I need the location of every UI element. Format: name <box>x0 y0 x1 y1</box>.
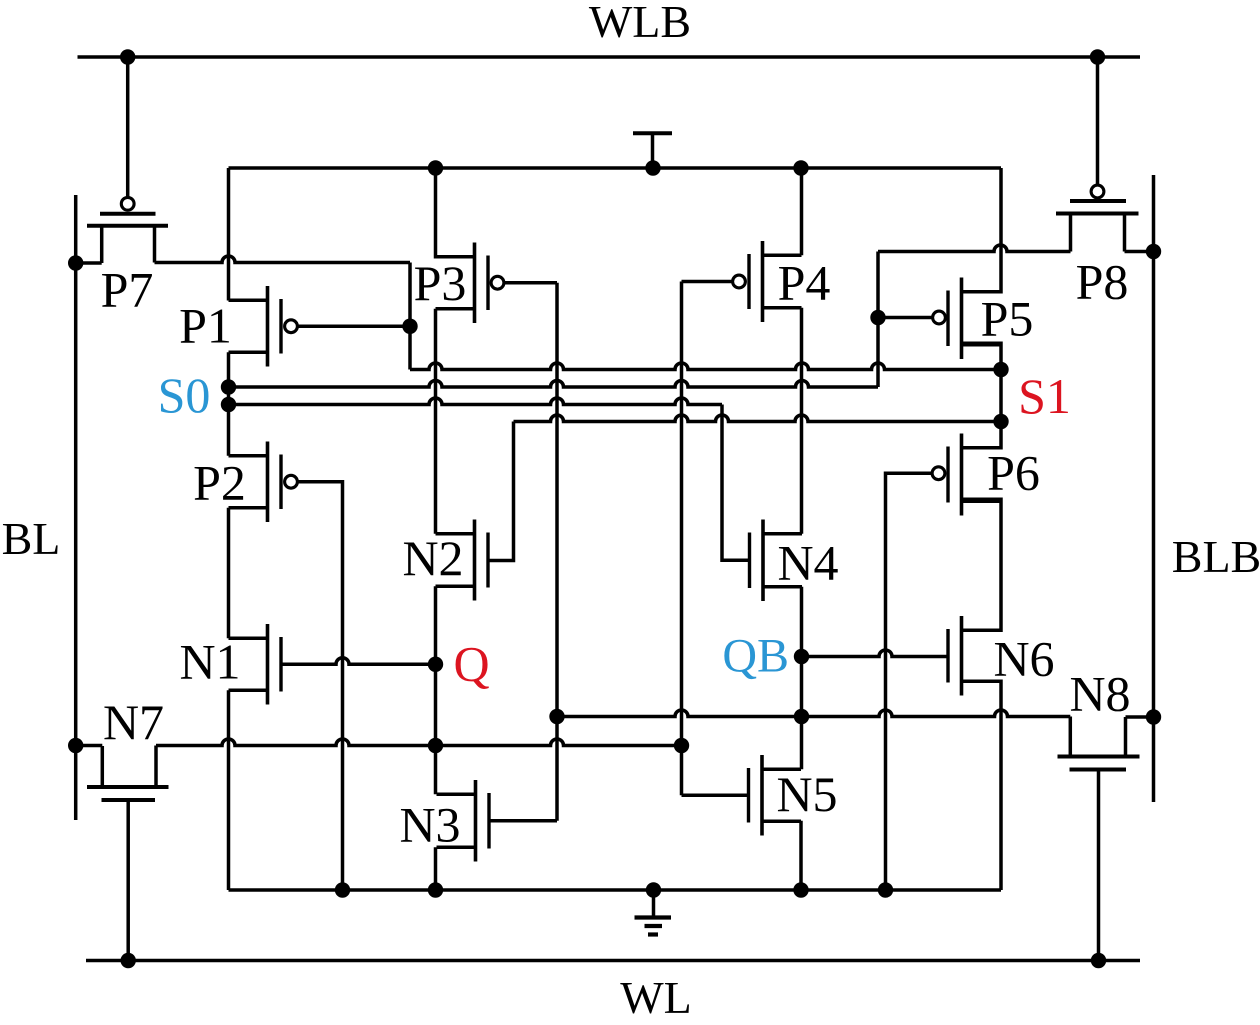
transistor P8 gate bubble <box>1091 185 1104 198</box>
svg-text:WL: WL <box>620 972 692 1023</box>
transistor N3 <box>474 780 478 862</box>
node WLB junction right <box>1090 49 1105 64</box>
wire Q line745 <box>156 739 682 745</box>
wire bus S0 upper <box>229 381 879 388</box>
node S1 lower dot <box>993 414 1008 429</box>
transistor P5 <box>960 278 964 360</box>
transistor N5 <box>760 755 764 836</box>
svg-text:P2: P2 <box>193 455 246 511</box>
wire P2 drain to N1 source <box>227 508 231 639</box>
svg-text:N6: N6 <box>993 631 1054 687</box>
wire N3 gate <box>489 819 557 823</box>
svg-text:P5: P5 <box>981 291 1034 347</box>
node WL junction right <box>1091 953 1106 968</box>
transistor P8 <box>1070 199 1126 203</box>
svg-text:Q: Q <box>454 636 490 692</box>
wire P5 gate <box>878 316 933 320</box>
wire P7 drain to P1 gate column <box>155 256 411 263</box>
wire N5 gate <box>682 794 749 798</box>
node ground rail junction P6gate <box>878 882 893 897</box>
node Q-right junction <box>674 738 689 753</box>
transistor P1 gate bubble <box>285 320 298 333</box>
wire P1 gate <box>297 325 410 329</box>
node P1 gate junction <box>402 319 417 334</box>
node BL N7 junction <box>68 738 83 753</box>
transistor P1 <box>266 286 270 367</box>
node S0 lower dot <box>221 397 236 412</box>
node VDD rail junction P3 <box>428 160 443 175</box>
transistor P3 gate bubble <box>491 276 504 289</box>
wire QB line716 <box>557 710 1070 717</box>
node Q dot <box>428 657 443 672</box>
wire P8 drain to P5 gate column <box>878 245 1071 251</box>
wire P4 drain to N4 source <box>800 308 804 534</box>
svg-text:N2: N2 <box>402 530 463 586</box>
transistor P5 gate bubble <box>933 311 946 324</box>
transistor P3 <box>473 243 477 324</box>
wire P7 gate to WLB <box>126 57 130 197</box>
svg-text:P1: P1 <box>179 298 232 354</box>
wire P3 source to VDD rail <box>436 168 475 257</box>
node WL junction left <box>121 953 136 968</box>
wire N5 drain to ground rail <box>799 821 803 890</box>
wire N2 gate column <box>488 422 514 561</box>
wire BL to P7 source <box>76 261 102 265</box>
svg-text:S1: S1 <box>1018 368 1071 424</box>
transistor P4 <box>761 241 765 322</box>
svg-text:N3: N3 <box>399 797 460 853</box>
transistor N6 <box>960 616 964 696</box>
wire N8 gate to WL <box>1097 770 1101 961</box>
transistor P7 gate bubble <box>121 197 134 210</box>
node S1 upper dot <box>993 362 1008 377</box>
node BL P7 junction <box>68 255 83 270</box>
transistor N4 <box>761 520 765 602</box>
node QB dot <box>794 649 809 664</box>
wire N1 drain to ground rail <box>227 690 231 890</box>
svg-text:P3: P3 <box>414 255 467 311</box>
wire VDD rail to P5 source <box>962 168 1002 292</box>
transistor N2 <box>473 520 477 601</box>
transistor P2 gate bubble <box>285 475 298 488</box>
node QB line716 junction <box>794 709 809 724</box>
node VDD stem junction <box>645 160 660 175</box>
svg-text:WLB: WLB <box>589 0 691 47</box>
svg-text:P6: P6 <box>987 445 1040 501</box>
wire N8 drain to BLB <box>1126 715 1154 719</box>
wire P8 gate to WLB <box>1096 57 1100 185</box>
transistor P6 gate bubble <box>932 467 945 480</box>
svg-text:BL: BL <box>2 513 61 564</box>
wire P1 drain to P2 source <box>227 352 231 456</box>
svg-text:P8: P8 <box>1076 254 1129 310</box>
wire bus S1 upper <box>410 363 1001 369</box>
svg-text:S0: S0 <box>158 367 211 423</box>
svg-text:P7: P7 <box>101 262 154 318</box>
wire P2 gate to ground <box>297 482 342 890</box>
ground symbol <box>652 890 656 918</box>
wire ground rail <box>229 888 1002 892</box>
wire P8 drain to BLB <box>1125 250 1154 254</box>
wire P6 gate to ground <box>886 473 933 890</box>
node BLB N8 junction <box>1146 709 1161 724</box>
wire WLB line <box>78 55 1141 59</box>
node VDD rail junction P4 <box>793 160 808 175</box>
wire P4 source to VDD rail <box>800 168 804 255</box>
svg-text:N4: N4 <box>777 535 838 591</box>
node ground rail junction N3 <box>428 882 443 897</box>
node ground rail junction GND <box>646 882 661 897</box>
wire BLB line <box>1152 175 1156 802</box>
transistor P2 <box>266 442 270 523</box>
wire P1 gate column vertical <box>408 263 412 370</box>
svg-text:N7: N7 <box>103 694 164 750</box>
wire N4 drain to N5 source <box>800 587 804 770</box>
transistor N8 <box>1058 755 1140 759</box>
node Q line745 junction <box>428 738 443 753</box>
wire P4 gate to N5 gate column <box>680 282 684 796</box>
transistor P7 <box>100 212 156 216</box>
transistor N1 <box>266 624 270 705</box>
svg-text:P4: P4 <box>778 255 831 311</box>
svg-text:N5: N5 <box>776 766 837 822</box>
wire N4 gate column <box>722 405 749 561</box>
wire N2 drain to N3 source <box>434 586 438 794</box>
wire N1 gate to Q <box>281 658 436 664</box>
wire BL line <box>74 195 78 820</box>
node P5 gate junction <box>870 310 885 325</box>
wire WL line <box>86 959 1140 963</box>
node ground rail junction N5 <box>793 882 808 897</box>
wire bus S0 lower <box>229 398 723 405</box>
transistor P6 <box>960 434 964 516</box>
wire N7 gate to WL <box>126 800 130 961</box>
wire bus S1 lower <box>514 415 1002 422</box>
svg-text:BLB: BLB <box>1172 531 1260 582</box>
wire N3 drain to ground rail <box>434 847 438 890</box>
transistor P4 gate bubble <box>733 275 746 288</box>
node ground rail junction P2gate <box>335 882 350 897</box>
wire P3 gate <box>504 281 557 285</box>
svg-text:N1: N1 <box>179 634 240 690</box>
power VDD rail <box>229 166 1002 170</box>
power VDD symbol <box>633 131 672 135</box>
node WLB junction left <box>120 49 135 64</box>
wire P4 gate <box>682 280 733 284</box>
svg-text:QB: QB <box>722 630 789 683</box>
svg-text:N8: N8 <box>1069 666 1130 722</box>
node QB-left junction <box>549 709 564 724</box>
wire P3 drain to N2 source <box>434 309 438 534</box>
node BLB P8 junction <box>1146 244 1161 259</box>
wire P3 gate to N3 gate column <box>555 283 559 821</box>
wire N6 drain to ground rail <box>962 681 1002 890</box>
wire VDD rail to P1 source <box>227 168 231 301</box>
transistor N7 <box>87 785 169 789</box>
node S0 upper dot <box>221 379 236 394</box>
wire BL to N7 source <box>76 744 103 748</box>
wire QB to N6 gate <box>802 650 949 657</box>
wire P5 drain to P6 source <box>962 343 1002 448</box>
wire P6 drain to N6 source <box>962 499 1002 630</box>
wire P5 gate column vertical <box>876 252 880 388</box>
